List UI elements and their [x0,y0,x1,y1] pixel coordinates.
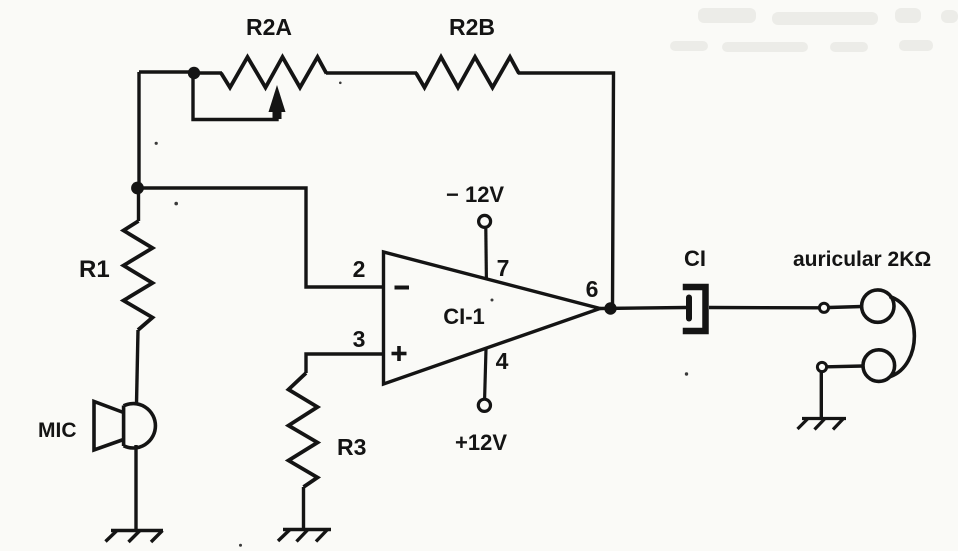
resistor R1 [124,188,153,404]
pin 4 supply: wire and terminal circle [478,349,490,411]
ground under headphone [798,419,847,430]
svg-text:CI-1: CI-1 [443,304,485,329]
wire: left vertical from top corner down to node A [137,72,140,188]
capacitor CI (right bracket plate) [686,287,706,331]
svg-text:3: 3 [353,326,366,352]
wire: mic to ground [134,445,137,530]
pin 7 supply: wire and terminal circle [479,215,491,279]
svg-text:+12V: +12V [455,430,507,455]
wire: R2A to R2B [326,71,417,74]
svg-text:R2B: R2B [449,14,495,40]
resistor R3 [289,373,318,529]
svg-text:2: 2 [353,256,366,282]
capacitor CI (left plate) [686,298,692,319]
non-inverting input plus sign [392,346,407,361]
wire: junction to R2A [194,71,222,74]
paper specks (decorative) [155,82,689,547]
jack terminal top (open circle) [819,303,828,312]
svg-text:R3: R3 [337,434,366,460]
ground under R3 [278,530,331,542]
wire: op-amp output to capacitor CI [600,308,687,309]
svg-text:R1: R1 [79,256,110,283]
bleedthrough smudges (decorative) [670,8,958,52]
potentiometer wiper arrow of R2A [269,85,286,119]
wire: bottom jack down to ground [820,372,823,419]
node output junction (pin 6) [604,302,616,314]
wire: capacitor to jack terminal [709,306,819,310]
resistor R2B [416,57,519,88]
resistor R2A [221,57,327,88]
wire: bottom jack to earpiece bottom [827,364,863,368]
wire: node A to pin 2 of op-amp [138,188,384,287]
svg-text:auricular 2KΩ: auricular 2KΩ [793,248,931,271]
svg-text:MIC: MIC [38,419,77,442]
wire: wiper return (down, left, up to junction) [193,73,277,120]
wire: pin 3 to R3 [306,354,383,373]
headphone auricular: top earpiece [862,290,894,322]
node A junction (input node) [131,182,144,195]
ground under MIC [106,531,164,543]
wire: jack to earpiece top [829,307,862,308]
svg-text:7: 7 [497,255,510,281]
headphone auricular: bottom earpiece [863,350,895,382]
svg-text:6: 6 [586,276,599,302]
wire: top horizontal from corner to junction [139,70,196,73]
wire: R2B right then down to output node [518,73,614,307]
headphone band arc [890,297,915,377]
svg-text:− 12V: − 12V [446,182,504,207]
svg-text:4: 4 [496,348,509,374]
microphone MIC [94,402,155,451]
inverting input minus sign [395,286,410,290]
svg-text:CI: CI [684,246,706,271]
svg-text:R2A: R2A [246,14,292,40]
op-amp U1 (CI-1) triangle [384,252,601,384]
jack terminal bottom (open circle) [817,362,826,371]
node junction top (wiper tap) [188,67,200,79]
